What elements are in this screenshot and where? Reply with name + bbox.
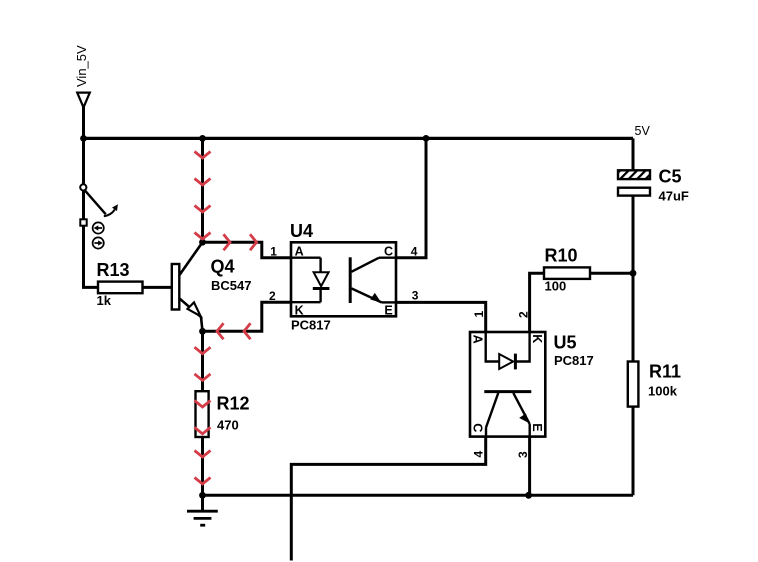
- wire collector node to U4 pin1: [203, 242, 292, 258]
- svg-text:3: 3: [412, 289, 419, 303]
- U4 pin name E: [384, 304, 392, 318]
- label R10 value 100: [545, 246, 578, 294]
- current arrows emitter to ground: [195, 347, 211, 484]
- wire U5 pin4 going left and down off page: [291, 437, 485, 561]
- capacitor C5 top plate hatched: [618, 170, 650, 179]
- switch bottom contact square: [80, 219, 86, 225]
- node U5 pin3 junction: [525, 492, 532, 499]
- svg-text:2: 2: [517, 311, 531, 318]
- ground: [187, 495, 218, 525]
- U4 internal phototransistor: [350, 257, 396, 303]
- wire port to rail: [82, 107, 85, 138]
- label R11 value 100k: [648, 362, 681, 399]
- current arrows from U4 pin2 to emitter node: [217, 323, 251, 339]
- wire U4 pin3 to U5 pin1: [396, 302, 486, 332]
- svg-text:C5: C5: [659, 167, 682, 187]
- node ground junction: [199, 492, 206, 499]
- svg-text:1: 1: [270, 244, 277, 258]
- U5 pin number 4: [472, 451, 486, 458]
- label U4 value PC817: [290, 221, 331, 332]
- label R13 value 1k: [97, 260, 130, 308]
- resistor R12: [196, 391, 209, 437]
- svg-text:2: 2: [269, 289, 276, 303]
- wire R10 to right bus: [590, 272, 633, 275]
- U4 pin number 2: [269, 289, 276, 303]
- resistor R11: [628, 362, 639, 407]
- resistor R10: [544, 267, 590, 279]
- svg-text:3: 3: [516, 451, 530, 458]
- label U5 value PC817: [554, 333, 594, 369]
- svg-text:K: K: [530, 334, 544, 343]
- wire U4 pin4 to rail: [396, 138, 426, 257]
- current arrows collector feed: [195, 152, 211, 240]
- svg-text:100k: 100k: [648, 384, 678, 399]
- node Q4 emitter: [199, 328, 206, 335]
- svg-text:A: A: [470, 335, 484, 344]
- label C5 value 47uF: [659, 167, 689, 204]
- svg-text:1: 1: [472, 311, 486, 318]
- svg-text:Vin_5V: Vin_5V: [74, 45, 89, 87]
- net label 5V: [635, 124, 651, 138]
- U4 pin number 4: [411, 244, 418, 258]
- U5 pin number 2: [517, 311, 531, 318]
- svg-text:4: 4: [411, 244, 418, 258]
- transistor Q4 collector lead: [179, 242, 202, 275]
- op-amp U4 optocoupler body: [291, 242, 396, 316]
- svg-text:R11: R11: [649, 362, 681, 382]
- svg-text:100: 100: [545, 278, 567, 293]
- svg-text:R13: R13: [97, 260, 130, 280]
- svg-text:U4: U4: [290, 221, 313, 241]
- U5 pin name A: [470, 335, 484, 344]
- svg-text:R10: R10: [545, 246, 578, 266]
- svg-text:R12: R12: [217, 393, 250, 413]
- svg-text:E: E: [530, 423, 544, 431]
- U4 internal LED: [291, 258, 329, 303]
- U4 pin name K: [295, 304, 304, 318]
- switch toggle button down: [93, 237, 104, 248]
- wire U5 pin3 to bottom rail: [528, 437, 531, 496]
- U5 pin number 3: [516, 451, 530, 458]
- transistor Q4 base bar: [172, 264, 180, 310]
- node rail-collector junction: [199, 135, 206, 142]
- svg-text:Q4: Q4: [211, 257, 235, 277]
- svg-text:A: A: [295, 245, 304, 259]
- node Q4 collector: [199, 239, 206, 246]
- wire rail down to collector node: [201, 138, 204, 242]
- wire emitter node to U4 pin2: [203, 302, 292, 331]
- svg-text:C: C: [384, 245, 393, 259]
- svg-text:PC817: PC817: [554, 353, 594, 368]
- U5 internal phototransistor: [484, 392, 531, 437]
- label R12 value 470: [217, 393, 250, 432]
- transistor Q4 emitter lead with arrow: [179, 298, 202, 331]
- svg-text:470: 470: [217, 418, 239, 433]
- U5 internal LED: [486, 332, 530, 369]
- svg-text:4: 4: [472, 451, 486, 458]
- svg-text:5V: 5V: [635, 124, 651, 138]
- wire bottom ground rail: [203, 494, 634, 497]
- U5 pin name K: [530, 334, 544, 343]
- U5 pin name E: [530, 423, 544, 431]
- current arrows into U4 pin1: [224, 234, 257, 250]
- port Vin_5V: [77, 93, 90, 108]
- capacitor C5 bottom plate: [618, 188, 650, 196]
- wire emitter node to R12: [201, 331, 204, 391]
- switch SW pivot circle: [80, 184, 86, 190]
- wire R11 to bottom rail: [632, 407, 635, 496]
- U4 pin number 1: [270, 244, 277, 258]
- svg-text:BC547: BC547: [211, 278, 251, 293]
- node rail-port junction: [80, 135, 87, 142]
- node R10 right bus junction: [630, 270, 637, 277]
- wire U5 pin2 to R10: [530, 273, 544, 332]
- switch actuation curved arrow: [104, 204, 118, 216]
- wire C5 to R11: [632, 196, 635, 362]
- svg-text:47uF: 47uF: [659, 189, 689, 204]
- U4 pin name C: [384, 245, 393, 259]
- node rail-U4pin4 junction: [423, 135, 430, 142]
- wire 5V top rail: [84, 137, 634, 140]
- switch blade: [85, 190, 106, 214]
- U5 pin number 1: [472, 311, 486, 318]
- resistor R13: [98, 282, 172, 294]
- net label Vin_5V: [74, 45, 89, 87]
- op-amp U5 optocoupler body: [470, 332, 545, 437]
- svg-text:K: K: [295, 304, 304, 318]
- svg-text:U5: U5: [554, 333, 577, 353]
- U4 pin number 3: [412, 289, 419, 303]
- wire switch to R13: [84, 191, 99, 288]
- svg-text:PC817: PC817: [291, 317, 331, 332]
- wire rail to C5: [632, 138, 635, 170]
- switch toggle button up: [93, 222, 104, 233]
- label Q4 value BC547: [211, 257, 252, 293]
- svg-text:C: C: [470, 423, 484, 432]
- U4 pin name A: [295, 245, 304, 259]
- wire R12 to ground node: [201, 437, 204, 495]
- U5 pin name C: [470, 423, 484, 432]
- svg-text:1k: 1k: [97, 293, 112, 308]
- svg-text:E: E: [384, 304, 392, 318]
- wire rail to switch: [82, 138, 85, 184]
